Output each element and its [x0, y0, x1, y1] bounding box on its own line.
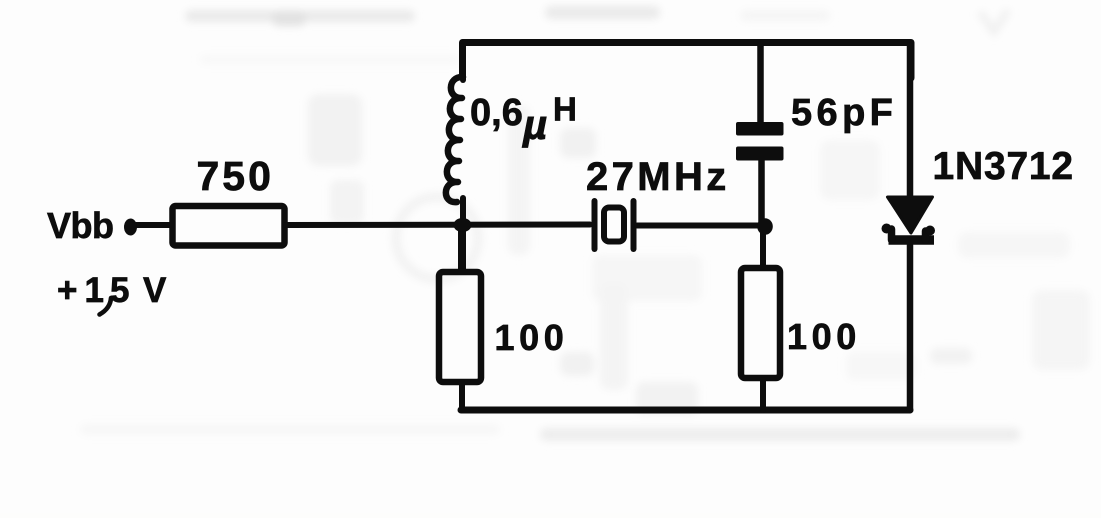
svg-text:Vbb: Vbb	[47, 205, 114, 246]
resistor 100 right box	[741, 268, 780, 378]
wire node B to right 100 resistor	[760, 226, 766, 266]
svg-text:27MHz: 27MHz	[586, 155, 730, 199]
wire node A down to left 100 resistor	[458, 225, 464, 271]
resistor 100 left box	[439, 272, 481, 382]
svg-text:0,6: 0,6	[470, 92, 523, 134]
crystal X1 right electrode bar	[631, 201, 637, 249]
wire diode branch lower	[907, 240, 914, 410]
node Vbb terminal dot	[124, 219, 137, 236]
wire 750 resistor to node A	[286, 222, 590, 229]
svg-text:100: 100	[787, 316, 861, 357]
crystal X1 body	[604, 208, 624, 242]
wire capacitor bottom to node B	[758, 158, 765, 228]
node B junction dot	[757, 218, 773, 235]
svg-text:5: 5	[110, 271, 129, 310]
svg-text:1: 1	[85, 271, 104, 310]
wire Vbb terminal to resistor 750	[131, 222, 172, 228]
svg-text:1N3712: 1N3712	[933, 145, 1074, 188]
wire left resistor bottom to bottom rail	[459, 382, 465, 410]
svg-text:V: V	[143, 271, 167, 310]
diode D 1N3712 triangle	[888, 197, 933, 233]
svg-text:+: +	[57, 271, 77, 310]
resistor R 750 box	[173, 206, 285, 246]
wire inductor to node A	[460, 198, 466, 272]
capacitor C 56pF top plate	[736, 122, 784, 136]
svg-text:750: 750	[197, 153, 274, 199]
node A junction dot	[454, 218, 472, 232]
wire crystal to node B	[637, 223, 765, 229]
svg-text:µ: µ	[522, 101, 547, 148]
wire bottom rail	[461, 407, 910, 414]
crystal X1 left electrode bar	[592, 201, 598, 249]
svg-text:100: 100	[495, 317, 569, 358]
wire diode branch upper	[907, 46, 914, 200]
svg-text:56pF: 56pF	[791, 92, 897, 134]
inductor L 0,6uH	[446, 77, 463, 202]
wire right resistor bottom to bottom rail	[760, 380, 766, 410]
diode D 1N3712 tunnel cathode bracket	[889, 229, 935, 240]
wire left branch upper stub	[460, 46, 466, 80]
wire top rail	[463, 43, 912, 79]
wire cap branch top stub	[757, 46, 764, 124]
capacitor C 56pF bottom plate	[736, 147, 784, 161]
svg-text:H: H	[553, 91, 577, 128]
